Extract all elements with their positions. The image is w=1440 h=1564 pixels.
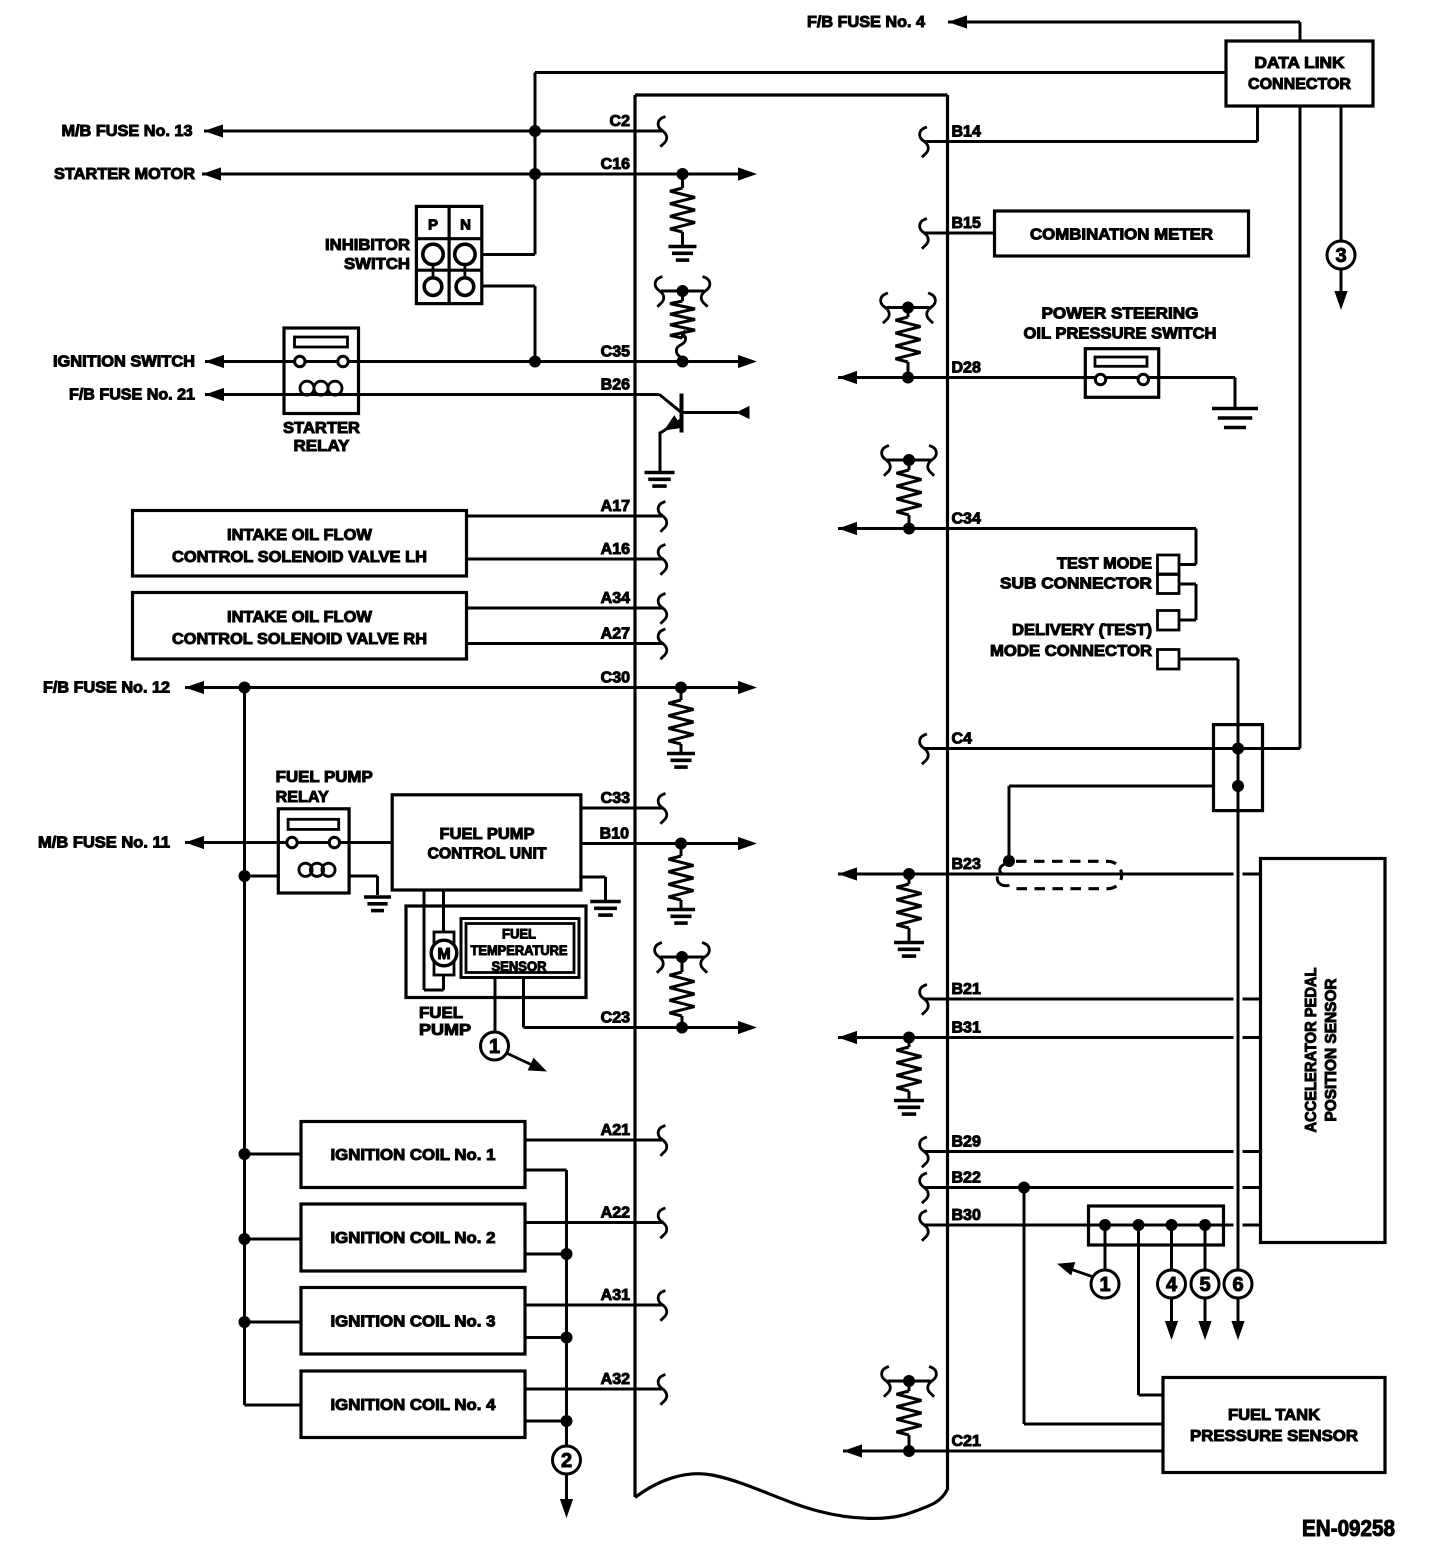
svg-text:3: 3 [1335,245,1346,267]
svg-text:B22: B22 [952,1170,981,1187]
svg-text:ACCELERATOR PEDAL: ACCELERATOR PEDAL [1303,967,1320,1132]
svg-text:B23: B23 [952,856,981,873]
svg-text:IGNITION COIL No. 2: IGNITION COIL No. 2 [331,1230,496,1247]
svg-text:FUEL PUMP: FUEL PUMP [276,769,373,786]
svg-text:CONTROL SOLENOID VALVE RH: CONTROL SOLENOID VALVE RH [172,631,427,648]
svg-text:C23: C23 [601,1010,630,1027]
svg-text:A32: A32 [601,1371,630,1388]
svg-text:PRESSURE SENSOR: PRESSURE SENSOR [1190,1428,1358,1445]
svg-text:4: 4 [1166,1274,1178,1296]
svg-text:SWITCH: SWITCH [344,256,410,273]
svg-text:C34: C34 [952,511,981,528]
svg-text:COMBINATION METER: COMBINATION METER [1030,227,1213,244]
svg-text:B14: B14 [952,124,981,141]
svg-text:OIL PRESSURE SWITCH: OIL PRESSURE SWITCH [1024,326,1217,343]
svg-text:F/B FUSE No. 4: F/B FUSE No. 4 [807,14,925,31]
svg-text:PUMP: PUMP [419,1022,471,1039]
svg-text:CONTROL SOLENOID VALVE LH: CONTROL SOLENOID VALVE LH [172,549,427,566]
svg-text:RELAY: RELAY [276,789,329,806]
svg-text:A31: A31 [601,1287,630,1304]
svg-text:SENSOR: SENSOR [492,959,547,974]
svg-text:M/B FUSE No. 11: M/B FUSE No. 11 [38,835,170,852]
svg-text:M/B FUSE No. 13: M/B FUSE No. 13 [62,123,193,140]
svg-text:IGNITION COIL No. 3: IGNITION COIL No. 3 [331,1313,496,1330]
svg-text:A34: A34 [601,590,630,607]
svg-text:CONNECTOR: CONNECTOR [1248,76,1351,93]
svg-text:FUEL: FUEL [419,1005,463,1022]
svg-text:C2: C2 [610,113,631,130]
svg-text:SUB CONNECTOR: SUB CONNECTOR [1000,576,1152,593]
svg-text:B10: B10 [600,826,629,843]
svg-text:F/B FUSE No. 12: F/B FUSE No. 12 [43,680,170,697]
svg-text:FUEL PUMP: FUEL PUMP [440,826,535,843]
svg-text:C33: C33 [601,790,630,807]
svg-text:C21: C21 [952,1433,981,1450]
svg-text:C4: C4 [952,731,973,748]
svg-text:B15: B15 [952,215,981,232]
svg-text:A22: A22 [601,1205,630,1222]
svg-text:1: 1 [489,1036,500,1058]
svg-text:1: 1 [1099,1274,1110,1296]
svg-text:STARTER MOTOR: STARTER MOTOR [54,166,195,183]
svg-text:DELIVERY (TEST): DELIVERY (TEST) [1012,622,1152,639]
svg-text:A17: A17 [601,498,630,515]
svg-text:A21: A21 [601,1122,630,1139]
svg-text:A16: A16 [601,541,630,558]
svg-text:POWER STEERING: POWER STEERING [1042,306,1199,323]
svg-text:C16: C16 [601,156,630,173]
svg-text:INTAKE OIL FLOW: INTAKE OIL FLOW [227,527,373,544]
svg-text:RELAY: RELAY [294,438,350,455]
svg-text:FUEL TANK: FUEL TANK [1228,1407,1320,1424]
svg-text:B29: B29 [952,1134,981,1151]
svg-text:EN-09258: EN-09258 [1302,1515,1395,1541]
svg-text:M: M [437,946,450,963]
svg-text:TEMPERATURE: TEMPERATURE [471,943,568,958]
svg-text:INTAKE OIL FLOW: INTAKE OIL FLOW [227,609,373,626]
svg-text:B26: B26 [601,377,630,394]
svg-text:IGNITION SWITCH: IGNITION SWITCH [53,354,195,371]
svg-text:IGNITION COIL No. 1: IGNITION COIL No. 1 [331,1147,496,1164]
svg-text:A27: A27 [601,626,630,643]
svg-text:B31: B31 [952,1020,981,1037]
svg-text:TEST MODE: TEST MODE [1057,556,1152,573]
svg-text:DATA LINK: DATA LINK [1255,55,1345,72]
svg-text:FUEL: FUEL [502,927,536,942]
svg-text:F/B FUSE No. 21: F/B FUSE No. 21 [69,387,195,404]
svg-text:STARTER: STARTER [283,420,360,437]
svg-text:INHIBITOR: INHIBITOR [325,237,410,254]
svg-text:POSITION SENSOR: POSITION SENSOR [1323,978,1340,1121]
svg-text:MODE CONNECTOR: MODE CONNECTOR [990,643,1152,660]
svg-text:5: 5 [1199,1274,1210,1296]
svg-text:C30: C30 [601,670,630,687]
svg-text:B30: B30 [952,1207,981,1224]
svg-text:N: N [460,217,471,234]
svg-text:P: P [428,217,438,234]
svg-text:2: 2 [561,1450,572,1472]
svg-text:6: 6 [1232,1274,1243,1296]
svg-text:CONTROL UNIT: CONTROL UNIT [428,846,547,863]
svg-text:C35: C35 [601,344,630,361]
svg-text:D28: D28 [952,360,981,377]
svg-text:B21: B21 [952,981,981,998]
svg-text:IGNITION COIL No. 4: IGNITION COIL No. 4 [331,1397,496,1414]
